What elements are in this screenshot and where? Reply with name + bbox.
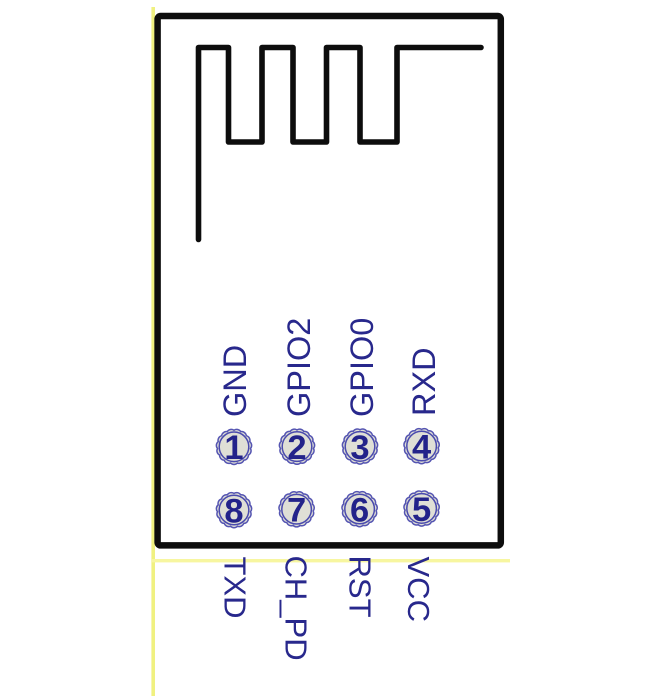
svg-text:GPIO2: GPIO2 xyxy=(281,318,317,417)
svg-text:5: 5 xyxy=(412,491,431,529)
pin label GND xyxy=(217,345,253,417)
pin 8 pad (TXD) xyxy=(216,492,251,530)
svg-text:2: 2 xyxy=(287,429,306,467)
svg-text:TXD: TXD xyxy=(217,557,252,619)
pin 2 pad (GPIO2) xyxy=(279,429,314,467)
svg-text:6: 6 xyxy=(350,491,369,529)
pin label VCC xyxy=(401,557,436,622)
guide line vertical (left margin rule) xyxy=(151,7,155,696)
svg-text:4: 4 xyxy=(412,428,431,466)
pin 4 pad (RXD) xyxy=(404,428,439,466)
svg-text:8: 8 xyxy=(224,492,243,530)
pin 6 pad (RST) xyxy=(342,491,377,529)
guide line horizontal (under module) xyxy=(152,559,510,562)
pin label GPIO2 xyxy=(281,318,317,417)
svg-text:1: 1 xyxy=(224,429,243,467)
pin label RXD xyxy=(406,347,442,416)
svg-text:VCC: VCC xyxy=(401,557,436,622)
svg-text:GPIO0: GPIO0 xyxy=(344,318,380,417)
pin 5 pad (VCC) xyxy=(404,491,439,529)
pin 1 pad (GND) xyxy=(216,429,251,467)
svg-text:3: 3 xyxy=(350,429,369,467)
svg-text:GND: GND xyxy=(217,345,253,417)
svg-text:RXD: RXD xyxy=(406,347,442,416)
svg-text:CH_PD: CH_PD xyxy=(279,556,314,661)
PCB meander antenna trace xyxy=(199,48,482,240)
pin label TXD xyxy=(217,557,252,619)
svg-text:7: 7 xyxy=(287,492,306,530)
ESP-01 module outline xyxy=(158,16,501,545)
svg-text:RST: RST xyxy=(343,556,378,618)
pin 3 pad (GPIO0) xyxy=(342,429,377,467)
pin label GPIO0 xyxy=(344,318,380,417)
pin 7 pad (CH_PD) xyxy=(279,492,314,530)
pin label CH_PD xyxy=(279,556,314,661)
pin label RST xyxy=(343,556,378,618)
